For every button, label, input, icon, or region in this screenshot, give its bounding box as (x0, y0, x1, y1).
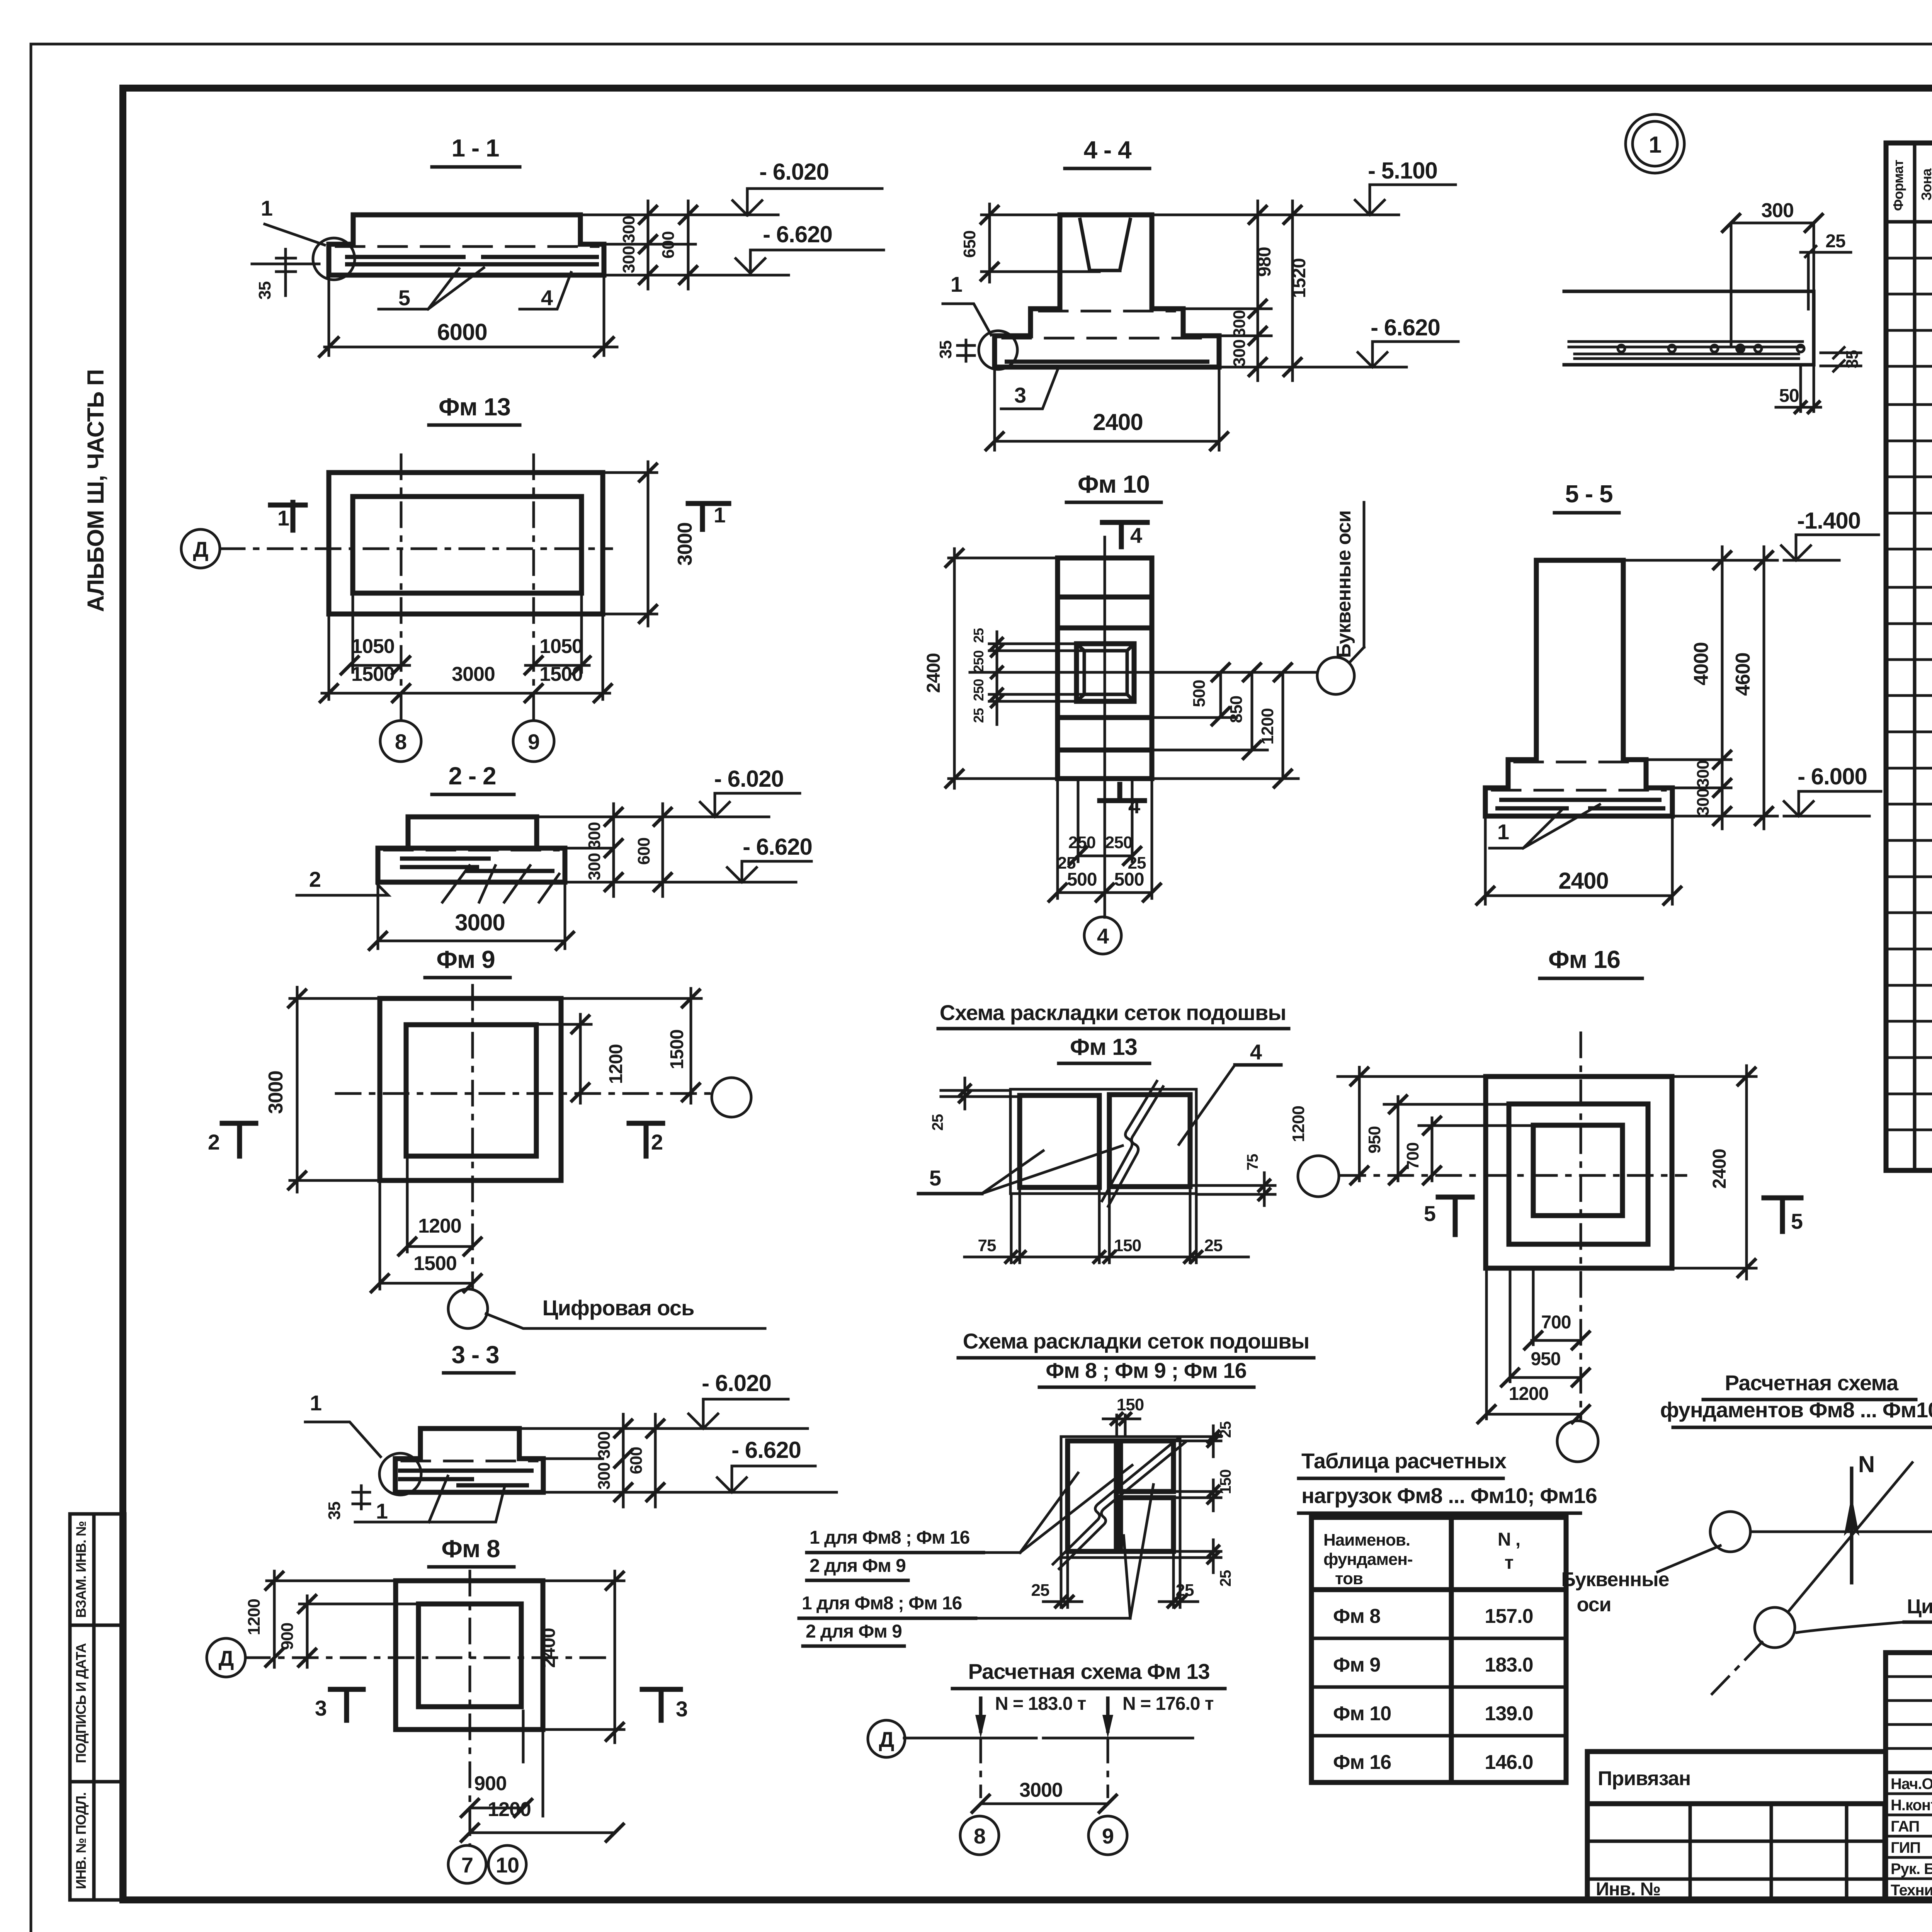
vertical axis (471, 985, 474, 1289)
svg-text:3 - 3: 3 - 3 (451, 1341, 499, 1369)
middle step square (1509, 1104, 1648, 1244)
svg-text:1 - 1: 1 - 1 (451, 134, 499, 162)
left dims 1200 900 (267, 1571, 418, 1667)
svg-text:1200: 1200 (1289, 1106, 1308, 1142)
table frame (1311, 1517, 1566, 1782)
step (1508, 760, 1646, 788)
bottom dims 25 25 (1043, 1551, 1198, 1607)
mesh dots (1618, 345, 1625, 352)
mesh cell left tall (1068, 1441, 1116, 1551)
svg-text:3000: 3000 (1019, 1779, 1063, 1801)
svg-text:5: 5 (929, 1166, 941, 1190)
svg-text:35: 35 (1843, 350, 1862, 368)
detail circle (979, 331, 1017, 369)
svg-text:- 6.000: - 6.000 (1798, 764, 1867, 789)
axes (970, 537, 1316, 917)
axis circle Д (181, 529, 220, 568)
footing plan rect (1058, 558, 1152, 779)
svg-text:8: 8 (974, 1824, 985, 1848)
svg-text:ИНВ. № ПОДЛ.: ИНВ. № ПОДЛ. (73, 1793, 89, 1889)
svg-text:4: 4 (1130, 523, 1142, 548)
svg-text:300: 300 (1761, 199, 1794, 222)
svg-text:139.0: 139.0 (1485, 1702, 1533, 1725)
svg-text:Привязан: Привязан (1598, 1767, 1690, 1790)
dashed lines (1492, 762, 1665, 790)
svg-text:2: 2 (208, 1130, 219, 1154)
svg-text:900: 900 (474, 1772, 507, 1795)
svg-text:6000: 6000 (437, 319, 487, 345)
svg-text:- 6.620: - 6.620 (731, 1437, 801, 1463)
svg-text:5: 5 (1791, 1209, 1803, 1233)
svg-text:3000: 3000 (455, 910, 505, 935)
svg-text:250: 250 (1105, 833, 1132, 852)
svg-text:Д: Д (879, 1727, 894, 1752)
svg-text:нагрузок Фм8 ... Фм10; Фм16: нагрузок Фм8 ... Фм10; Фм16 (1301, 1483, 1597, 1508)
svg-text:3000: 3000 (265, 1071, 287, 1114)
inner step square (418, 1604, 521, 1707)
svg-text:1500: 1500 (351, 663, 395, 685)
svg-text:Фм 10: Фм 10 (1333, 1702, 1391, 1725)
svg-text:157.0: 157.0 (1485, 1605, 1533, 1628)
svg-text:300: 300 (585, 822, 604, 849)
rebar (398, 1471, 534, 1485)
right dim 3000 (603, 462, 657, 626)
svg-text:N = 183.0 т: N = 183.0 т (995, 1694, 1086, 1714)
svg-text:Таблица расчетных: Таблица расчетных (1301, 1449, 1507, 1473)
svg-text:10: 10 (496, 1853, 519, 1877)
svg-text:7: 7 (461, 1853, 473, 1877)
cut mark 2 right (629, 1123, 663, 1156)
svg-text:850: 850 (1227, 696, 1246, 723)
slab section (1564, 291, 1814, 365)
inner step rect (353, 497, 582, 593)
right dims 300 300 600 (519, 1429, 765, 1492)
left dims 1200 950 700 (1338, 1067, 1533, 1181)
svg-text:фундамен-: фундамен- (1323, 1550, 1413, 1569)
mesh lines (1569, 342, 1803, 359)
svg-text:300: 300 (1230, 340, 1249, 367)
svg-text:250: 250 (1068, 833, 1095, 852)
svg-text:5: 5 (1424, 1201, 1435, 1226)
detail circle at left end (313, 238, 355, 280)
axis circle bottom (448, 1289, 488, 1328)
svg-text:тов: тов (1335, 1569, 1363, 1588)
svg-text:250: 250 (971, 650, 986, 672)
base slab (1485, 788, 1672, 816)
inner step square (406, 1025, 536, 1156)
title block frame (1886, 1653, 1932, 1900)
mesh cell right (1109, 1095, 1190, 1187)
left dim 2400 (949, 549, 1058, 788)
svg-text:1: 1 (277, 506, 289, 530)
axis circle 4 (1084, 917, 1121, 954)
rebar (1495, 800, 1665, 808)
svg-text:500: 500 (1190, 680, 1209, 707)
svg-text:- 5.100: - 5.100 (1368, 158, 1437, 184)
spec table row lines (1886, 258, 1932, 1130)
axis line (904, 1737, 1193, 1740)
svg-text:2400: 2400 (1709, 1149, 1730, 1189)
outer footing square (396, 1581, 543, 1730)
svg-text:-1.400: -1.400 (1797, 508, 1861, 534)
svg-text:183.0: 183.0 (1485, 1654, 1533, 1676)
svg-text:9: 9 (1102, 1824, 1114, 1848)
svg-text:150: 150 (1217, 1469, 1234, 1494)
cut mark 4 bottom (1100, 784, 1145, 801)
svg-text:25: 25 (971, 628, 986, 643)
dim 25 top left (941, 1078, 1020, 1109)
svg-text:50: 50 (1779, 386, 1799, 406)
svg-text:1: 1 (261, 196, 272, 220)
svg-text:300: 300 (619, 216, 638, 243)
outer sole rect (1061, 1437, 1180, 1558)
svg-text:Цифровая ось: Цифровая ось (543, 1296, 694, 1320)
svg-text:1520: 1520 (1289, 259, 1310, 298)
svg-text:150: 150 (1114, 1236, 1141, 1255)
node circle 1 (1626, 114, 1684, 173)
bottom dims 75 150 25 (964, 1187, 1248, 1263)
svg-text:Фм 8: Фм 8 (1333, 1605, 1380, 1628)
svg-text:600: 600 (659, 231, 678, 259)
horizontal axis (336, 1092, 712, 1095)
svg-text:- 6.020: - 6.020 (702, 1370, 771, 1396)
cut mark 1 right (688, 503, 729, 529)
upper body (420, 1429, 519, 1459)
svg-text:4: 4 (541, 286, 553, 310)
rebar mesh lines (345, 257, 599, 264)
svg-text:250: 250 (971, 679, 986, 701)
svg-text:Фм 9: Фм 9 (436, 946, 495, 973)
dim 35 right (1821, 347, 1861, 371)
axis circle bottom (1557, 1421, 1598, 1462)
svg-text:4600: 4600 (1732, 653, 1754, 696)
svg-text:Буквенные: Буквенные (1561, 1568, 1669, 1591)
svg-text:300: 300 (619, 246, 638, 273)
svg-text:Фм 10: Фм 10 (1078, 470, 1150, 498)
svg-text:4000: 4000 (1690, 642, 1713, 685)
svg-text:1: 1 (376, 1499, 388, 1523)
svg-text:1200: 1200 (1509, 1384, 1549, 1404)
dim 650 (981, 204, 1099, 282)
diagonal break (1053, 1437, 1185, 1569)
svg-text:Фм 8 ; Фм 9 ; Фм 16: Фм 8 ; Фм 9 ; Фм 16 (1046, 1358, 1246, 1383)
cut mark 3 right (642, 1689, 680, 1720)
left margin stamp boxes (70, 1514, 125, 1900)
svg-text:950: 950 (1531, 1349, 1560, 1369)
axis circle left (1298, 1156, 1339, 1197)
svg-text:600: 600 (627, 1447, 646, 1474)
upper body (408, 817, 537, 848)
svg-text:ПОДПИСЬ И ДАТА: ПОДПИСЬ И ДАТА (73, 1643, 89, 1763)
svg-text:1500: 1500 (539, 663, 583, 685)
left dim 3000 (290, 987, 380, 1192)
mesh cell right bottom (1121, 1498, 1173, 1551)
hatch leaders under slab (442, 866, 559, 902)
svg-text:Д: Д (193, 537, 208, 561)
dashed top of slab (336, 245, 598, 248)
svg-text:2: 2 (309, 867, 321, 891)
vertical axes (401, 455, 534, 719)
svg-text:300: 300 (1694, 760, 1713, 787)
svg-text:N: N (1858, 1451, 1874, 1477)
dashed slab top (384, 849, 558, 852)
svg-text:1: 1 (1497, 820, 1509, 844)
bottom dims 900 1200 (470, 1711, 615, 1833)
svg-text:3000: 3000 (674, 522, 696, 566)
svg-text:300: 300 (595, 1463, 614, 1490)
svg-text:35: 35 (255, 281, 274, 299)
svg-text:1200: 1200 (418, 1215, 461, 1237)
svg-text:Фм 16: Фм 16 (1333, 1751, 1391, 1774)
dashed droplines (981, 1738, 1108, 1797)
dim 75 right (1190, 1173, 1275, 1206)
svg-text:2: 2 (651, 1130, 663, 1154)
svg-text:Схема раскладки сеток подошвы: Схема раскладки сеток подошвы (940, 1000, 1286, 1025)
svg-text:Расчетная схема Фм 13: Расчетная схема Фм 13 (968, 1659, 1209, 1684)
inner column square (1533, 1125, 1622, 1216)
svg-text:1200: 1200 (1258, 708, 1277, 745)
horizontal axis (220, 548, 612, 550)
step (1031, 309, 1183, 336)
dim 35 (353, 1486, 370, 1509)
svg-text:300: 300 (1694, 789, 1713, 816)
svg-text:1 для Фм8 ; Фм 16: 1 для Фм8 ; Фм 16 (810, 1527, 969, 1548)
svg-text:Схема раскладки сеток подошвы: Схема раскладки сеток подошвы (963, 1329, 1309, 1353)
svg-text:2400: 2400 (1093, 409, 1143, 435)
svg-text:4 - 4: 4 - 4 (1083, 136, 1131, 164)
svg-text:2 для Фм 9: 2 для Фм 9 (810, 1556, 906, 1576)
right dims 300 300 600 (452, 817, 750, 882)
outer footing square (1486, 1077, 1672, 1268)
svg-text:146.0: 146.0 (1485, 1751, 1533, 1774)
svg-text:1 для Фм8 ; Фм 16: 1 для Фм8 ; Фм 16 (802, 1593, 962, 1614)
svg-text:т: т (1505, 1553, 1514, 1573)
cut mark 5 left (1438, 1197, 1472, 1235)
svg-text:25: 25 (1825, 231, 1845, 252)
svg-text:- 6.620: - 6.620 (743, 834, 812, 860)
svg-text:2400: 2400 (1558, 868, 1608, 894)
cut mark 5 right (1764, 1198, 1801, 1231)
svg-text:300: 300 (595, 1432, 614, 1459)
dim 500 500 (1058, 779, 1152, 898)
svg-text:600: 600 (634, 838, 653, 865)
axis circle Д (868, 1720, 905, 1757)
svg-text:2400: 2400 (923, 653, 944, 693)
svg-text:2400: 2400 (539, 1628, 559, 1668)
left small dims 25 250 250 25 (989, 632, 1084, 724)
rebar (1005, 360, 1209, 364)
svg-text:1050: 1050 (539, 635, 583, 658)
cut mark 4 top (1102, 522, 1147, 547)
svg-text:900: 900 (278, 1623, 297, 1650)
svg-text:300: 300 (585, 853, 604, 880)
right dims 500 850 1200 (1152, 672, 1298, 779)
svg-text:АЛЬБОМ Ш, ЧАСТЬ П: АЛЬБОМ Ш, ЧАСТЬ П (83, 369, 109, 612)
svg-text:1: 1 (310, 1391, 321, 1415)
svg-text:75: 75 (1244, 1154, 1261, 1170)
svg-text:4: 4 (1097, 924, 1109, 948)
horizontal axis with circle (1751, 1531, 1932, 1533)
right dims 25 150 25 (1173, 1426, 1221, 1457)
svg-text:4: 4 (1128, 794, 1140, 818)
outer footing rect (329, 473, 603, 614)
svg-text:N ,: N , (1498, 1529, 1520, 1550)
svg-text:Цифровые оси: Цифровые оси (1907, 1595, 1932, 1618)
binding box frame (1587, 1752, 1886, 1900)
svg-text:25: 25 (971, 708, 986, 723)
svg-text:N = 176.0 т: N = 176.0 т (1122, 1694, 1214, 1714)
axes (1341, 1033, 1686, 1421)
svg-text:2 - 2: 2 - 2 (448, 762, 496, 790)
svg-text:- 6.020: - 6.020 (759, 159, 829, 185)
svg-text:3000: 3000 (452, 663, 495, 685)
svg-text:650: 650 (960, 231, 979, 258)
base slab (995, 336, 1219, 367)
dashed slab top (402, 1460, 537, 1463)
svg-text:25: 25 (1204, 1236, 1223, 1255)
outer footing square (380, 998, 561, 1180)
diagonal break line (1102, 1081, 1163, 1206)
svg-text:300: 300 (1230, 310, 1249, 337)
cut mark 3 left (330, 1689, 363, 1720)
dashed lines (1003, 311, 1211, 338)
right dims 1200 1500 (535, 988, 701, 1103)
svg-text:1: 1 (714, 503, 725, 527)
column cup squares (1077, 644, 1134, 701)
svg-text:Наименов.: Наименов. (1323, 1531, 1410, 1549)
right dims 980 1520 300 300 (1152, 215, 1406, 367)
svg-text:- 6.620: - 6.620 (1371, 315, 1440, 340)
outer sole rect (1010, 1089, 1196, 1194)
svg-text:ГАП: ГАП (1891, 1818, 1919, 1835)
svg-text:35: 35 (325, 1502, 344, 1520)
column with cup (1060, 215, 1152, 309)
svg-text:Д: Д (219, 1646, 234, 1670)
bottom leaders (355, 1476, 505, 1522)
spec frame (1886, 143, 1932, 1170)
right dims 4000 4600 300 300 (1623, 560, 1777, 816)
svg-text:25: 25 (1176, 1581, 1194, 1600)
section 1-1 base slab (329, 244, 604, 275)
svg-text:25: 25 (1217, 1421, 1234, 1438)
digit axes circle (1755, 1607, 1795, 1648)
right dims 300 300 600 (580, 215, 789, 275)
svg-text:- 6.620: - 6.620 (763, 221, 832, 247)
mesh cell left (1020, 1095, 1099, 1187)
svg-text:3: 3 (676, 1697, 687, 1721)
dim 35 left (957, 340, 975, 361)
detail circle (379, 1453, 421, 1495)
svg-text:500: 500 (1114, 869, 1144, 890)
axes (245, 1571, 607, 1845)
column (1536, 560, 1623, 760)
svg-text:1500: 1500 (667, 1030, 687, 1070)
svg-text:- 6.020: - 6.020 (714, 766, 784, 792)
leader Цифровая ось (486, 1314, 765, 1328)
svg-text:35: 35 (936, 340, 955, 359)
svg-text:Нач.ОТЭП: Нач.ОТЭП (1891, 1776, 1932, 1793)
axis circles 7 10 (448, 1845, 486, 1883)
svg-text:9: 9 (528, 730, 539, 754)
rebar (400, 859, 554, 871)
cut mark 1 top left (270, 502, 305, 530)
svg-text:1200: 1200 (488, 1798, 531, 1821)
svg-text:25: 25 (1031, 1581, 1049, 1600)
svg-text:Фм 13: Фм 13 (1070, 1034, 1137, 1060)
svg-text:1500: 1500 (413, 1252, 457, 1275)
svg-text:Н.контр.: Н.контр. (1891, 1797, 1932, 1814)
svg-text:ВЗАМ. ИНВ. №: ВЗАМ. ИНВ. № (73, 1521, 89, 1618)
axis circle right with leader to vertical label (1317, 657, 1354, 694)
svg-text:Расчетная схема: Расчетная схема (1725, 1371, 1899, 1395)
svg-text:25: 25 (1217, 1570, 1234, 1587)
svg-text:3: 3 (1014, 383, 1026, 407)
svg-text:4: 4 (1250, 1040, 1262, 1064)
svg-text:Буквенные оси: Буквенные оси (1333, 510, 1355, 658)
svg-text:Фм 13: Фм 13 (439, 393, 510, 421)
svg-text:700: 700 (1403, 1143, 1422, 1170)
svg-text:Фм 8: Фм 8 (441, 1535, 500, 1563)
svg-text:2 для Фм 9: 2 для Фм 9 (806, 1621, 902, 1642)
base slab (378, 848, 565, 882)
svg-text:75: 75 (978, 1236, 996, 1255)
svg-text:500: 500 (1067, 869, 1097, 890)
svg-text:Зона: Зона (1918, 168, 1932, 201)
svg-text:Техник: Техник (1891, 1882, 1932, 1899)
svg-text:1200: 1200 (245, 1599, 264, 1635)
svg-text:оси: оси (1577, 1594, 1611, 1616)
force arrows (981, 1698, 1108, 1731)
dim 35 left (252, 249, 319, 296)
svg-text:8: 8 (395, 730, 406, 754)
base slab (395, 1459, 543, 1492)
mesh cell right top (1121, 1441, 1173, 1492)
svg-text:Фм 9: Фм 9 (1333, 1654, 1380, 1676)
section 1-1 upper body (353, 215, 580, 244)
bottom dims 700 950 1200 (1486, 1268, 1581, 1419)
svg-text:25: 25 (929, 1114, 946, 1131)
diagonal axis (1788, 1463, 1912, 1612)
axis circles 8 and 9 (380, 721, 421, 762)
cut mark 2 left (222, 1123, 256, 1156)
svg-text:ГИП: ГИП (1891, 1839, 1920, 1856)
svg-text:Фм 16: Фм 16 (1548, 946, 1620, 973)
right dim 2400 (1672, 1066, 1756, 1279)
svg-text:1050: 1050 (351, 635, 395, 658)
bottom dims 250 250 / 25 25 / 500 500 (1078, 779, 1132, 862)
svg-text:950: 950 (1365, 1126, 1384, 1153)
svg-text:700: 700 (1541, 1312, 1571, 1333)
svg-text:1200: 1200 (606, 1044, 626, 1084)
right dim 2400 (543, 1571, 624, 1743)
svg-text:Формат: Формат (1890, 160, 1906, 211)
svg-text:Инв. №: Инв. № (1596, 1879, 1660, 1900)
svg-text:980: 980 (1254, 247, 1275, 277)
svg-text:3: 3 (315, 1696, 327, 1720)
svg-text:5: 5 (398, 286, 410, 310)
axis circle Д (207, 1638, 245, 1677)
svg-text:5 - 5: 5 - 5 (1565, 480, 1612, 508)
axis circle right (712, 1078, 751, 1117)
axis circles 8 9 (960, 1816, 999, 1855)
svg-text:Рук. Бр.: Рук. Бр. (1891, 1861, 1932, 1878)
svg-text:1: 1 (951, 272, 962, 296)
svg-text:фундаментов Фм8 ... Фм10; Фм: фундаментов Фм8 ... Фм10; Фм 16 (1660, 1398, 1932, 1422)
svg-text:1: 1 (1649, 132, 1661, 158)
inner horizontal edges (1058, 597, 1152, 750)
